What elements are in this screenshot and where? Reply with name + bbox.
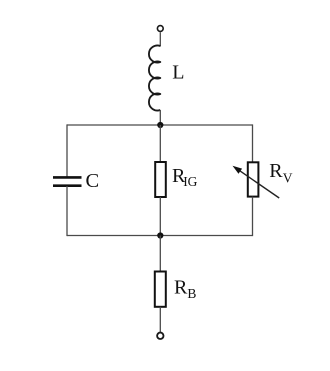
wire inductor to top node bbox=[159, 110, 161, 125]
terminal T1 (top) bbox=[157, 26, 163, 32]
wire bottom node to R_B bbox=[159, 236, 161, 272]
resistor R_V bbox=[248, 162, 259, 196]
svg-text:IG: IG bbox=[183, 174, 197, 189]
capacitor C bbox=[53, 177, 82, 185]
wire right rail upper bbox=[252, 124, 254, 162]
wire top rail bbox=[67, 124, 253, 126]
resistor R_B bbox=[155, 272, 166, 307]
svg-text:V: V bbox=[283, 170, 293, 185]
svg-text:C: C bbox=[86, 170, 100, 192]
wire R_IG to bottom node bbox=[159, 197, 161, 236]
svg-text:L: L bbox=[172, 61, 184, 83]
node bottom junction bbox=[157, 232, 163, 238]
wire left rail lower bbox=[66, 186, 68, 236]
wire top node to R_IG bbox=[159, 125, 161, 162]
svg-text:R: R bbox=[269, 160, 283, 182]
wire left rail upper bbox=[66, 124, 68, 177]
wire R_B to bottom terminal bbox=[159, 307, 161, 332]
arrow of variable resistor R_V bbox=[233, 166, 280, 198]
wire R_V to bottom rail bbox=[252, 197, 254, 237]
node top junction bbox=[157, 122, 163, 128]
wire top terminal to inductor bbox=[159, 32, 161, 46]
terminal T2 (bottom) bbox=[157, 333, 163, 339]
inductor L bbox=[149, 46, 160, 111]
resistor R_IG bbox=[155, 162, 166, 197]
wire bottom rail bbox=[67, 235, 253, 237]
svg-text:R: R bbox=[174, 276, 188, 298]
svg-text:B: B bbox=[187, 286, 196, 301]
